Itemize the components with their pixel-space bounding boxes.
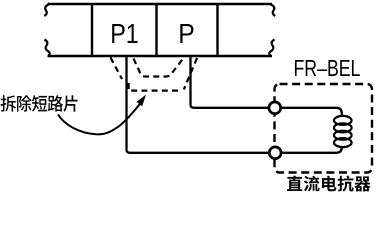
svg-text:P1: P1 bbox=[110, 19, 139, 49]
svg-text:FR–BEL: FR–BEL bbox=[294, 56, 361, 82]
svg-text:P: P bbox=[178, 18, 195, 50]
